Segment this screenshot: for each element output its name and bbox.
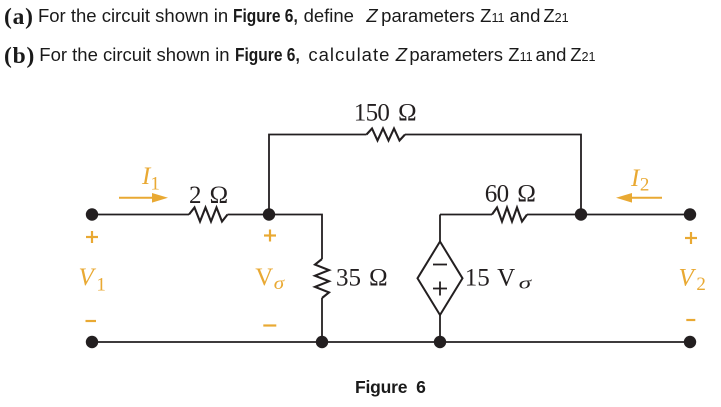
svg-text:V: V	[255, 264, 273, 291]
svg-text:150 Ω: 150 Ω	[354, 100, 416, 127]
svg-text:V1: V1	[79, 264, 106, 295]
svg-text:I1: I1	[141, 163, 160, 194]
svg-text:σ: σ	[274, 274, 286, 293]
svg-text:60 Ω: 60 Ω	[485, 181, 536, 208]
svg-text:15 V: 15 V	[465, 265, 515, 292]
svg-text:I2: I2	[630, 165, 649, 196]
svg-text:35 Ω: 35 Ω	[336, 264, 388, 291]
svg-text:2 Ω: 2 Ω	[189, 182, 228, 209]
svg-text:V2: V2	[679, 265, 706, 295]
svg-text:σ: σ	[519, 274, 533, 293]
